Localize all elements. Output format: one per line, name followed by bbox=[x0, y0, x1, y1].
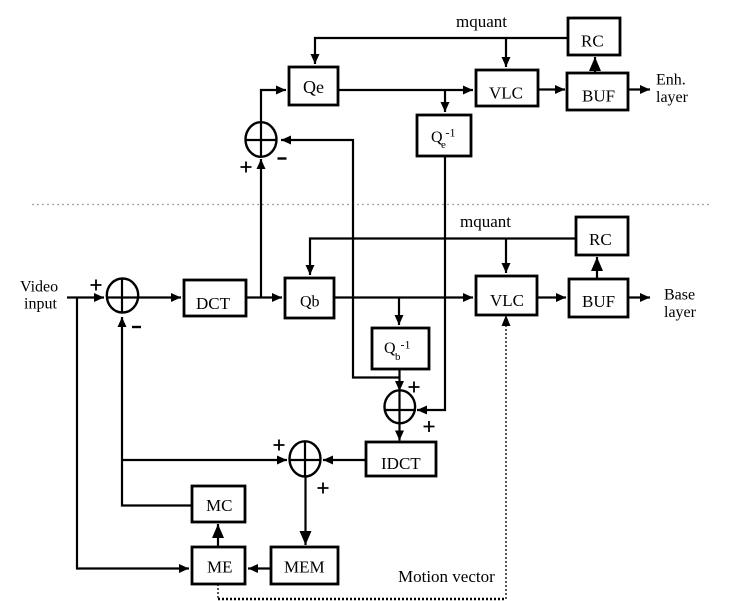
svg-text:input: input bbox=[24, 296, 57, 313]
svg-text:IDCT: IDCT bbox=[381, 454, 421, 473]
svg-text:MEM: MEM bbox=[284, 558, 325, 577]
box Qe-1 bbox=[417, 115, 471, 156]
plus signs at A3 bbox=[409, 382, 420, 393]
svg-text:Base: Base bbox=[664, 287, 695, 304]
wire RC base mquant line to Qb top bbox=[310, 239, 576, 276]
adder A1 (enhancement subtractor) bbox=[246, 122, 277, 157]
wire DCT junction up to A1 plus input bbox=[260, 159, 262, 298]
svg-text:MC: MC bbox=[206, 496, 232, 515]
svg-text:b: b bbox=[395, 351, 401, 363]
wire A3 to IDCT bbox=[398, 423, 400, 441]
wire Qb to VLC base bbox=[334, 296, 473, 298]
wire BUF output Base layer bbox=[628, 296, 650, 298]
wire mquant drop to VLC top bbox=[505, 38, 507, 67]
box Qb-1 bbox=[372, 328, 429, 369]
box IDCT bbox=[366, 442, 436, 476]
wire mquant drop to VLC base top bbox=[505, 239, 507, 274]
wire Qb-1 down to A3 bbox=[398, 369, 400, 391]
wire Qe-1 down to A3 right input bbox=[417, 156, 445, 410]
svg-text:Enh.: Enh. bbox=[656, 72, 686, 89]
dotted wire ME bottom down bbox=[217, 584, 219, 599]
box RC (enh) bbox=[568, 18, 620, 55]
svg-text:mquant: mquant bbox=[460, 212, 511, 231]
wire A4 down to MEM bbox=[304, 476, 306, 545]
wire IDCT to A4 bbox=[323, 459, 366, 461]
box BUF (enh) bbox=[567, 73, 628, 110]
svg-text:-1: -1 bbox=[446, 126, 456, 140]
svg-text:RC: RC bbox=[581, 32, 604, 51]
wire DCT to Qb bbox=[246, 296, 282, 298]
wire MC feedback junction to A4 left input bbox=[122, 459, 287, 461]
plus sign at A1 bbox=[241, 162, 252, 173]
plus signs at A4 bbox=[274, 440, 285, 451]
svg-text:mquant: mquant bbox=[456, 12, 507, 31]
minus sign at A1 bbox=[278, 157, 287, 159]
svg-text:DCT: DCT bbox=[196, 294, 231, 313]
box BUF (base) bbox=[569, 279, 628, 317]
wire ME to MC bbox=[217, 524, 219, 547]
wire video input to A2 bbox=[67, 296, 104, 298]
box DCT bbox=[184, 280, 246, 316]
minus sign at A2 bbox=[132, 326, 141, 328]
dotted wire motion vector up to VLC base bbox=[505, 319, 507, 599]
svg-text:VLC: VLC bbox=[489, 84, 523, 103]
box RC (base) bbox=[576, 217, 628, 255]
box VLC (base) bbox=[476, 276, 537, 315]
arrowhead into VLC base bottom bbox=[502, 315, 511, 326]
adder A3 (reconstruction adder) bbox=[385, 390, 416, 423]
box VLC (enh) bbox=[476, 70, 538, 106]
wire junction drop to Qe-1 bbox=[444, 90, 446, 112]
wire junction drop to Qb-1 bbox=[398, 298, 400, 326]
box Qb bbox=[285, 278, 334, 318]
wire VLC to BUF (enh) bbox=[538, 88, 565, 90]
plus sign at A2 bbox=[91, 280, 102, 291]
wire A2 to DCT bbox=[137, 296, 181, 298]
box ME bbox=[192, 547, 245, 584]
wire RC to mquant line to Qe top bbox=[315, 38, 568, 64]
svg-text:BUF: BUF bbox=[582, 292, 615, 311]
box MC bbox=[192, 486, 245, 522]
wire Qe to VLC bbox=[338, 89, 473, 91]
svg-text:layer: layer bbox=[656, 89, 689, 106]
wire MEM to ME bbox=[248, 567, 271, 569]
svg-text:ME: ME bbox=[207, 558, 233, 577]
svg-text:VLC: VLC bbox=[490, 291, 524, 310]
svg-text:Qe: Qe bbox=[303, 77, 324, 97]
svg-text:Video: Video bbox=[20, 279, 58, 296]
wire MC output to A2 bottom bbox=[122, 317, 192, 506]
wire BUF to RC (enh) bbox=[594, 57, 596, 73]
adder A4 (prediction adder) bbox=[290, 441, 321, 476]
svg-text:e: e bbox=[441, 139, 446, 151]
svg-text:RC: RC bbox=[589, 230, 612, 249]
box MEM bbox=[271, 547, 338, 584]
wire video branch down to ME bbox=[77, 298, 189, 569]
adder A2 (input subtractor) bbox=[107, 279, 138, 313]
svg-text:Motion vector: Motion vector bbox=[398, 567, 495, 586]
wire Qb-1 branch up to A1 minus input bbox=[281, 140, 399, 378]
box Qe bbox=[289, 67, 338, 105]
dashed layer separator bbox=[32, 204, 711, 206]
svg-text:BUF: BUF bbox=[582, 87, 615, 106]
wire adder A1 output to Qe bbox=[261, 90, 286, 123]
svg-text:Qb: Qb bbox=[300, 294, 320, 311]
wire BUF output Enh. layer bbox=[628, 88, 650, 90]
svg-text:layer: layer bbox=[664, 304, 697, 321]
dotted wire motion vector horizontal bbox=[218, 598, 506, 601]
wire VLC to BUF (base) bbox=[537, 296, 566, 298]
wire BUF to RC (base) bbox=[596, 257, 598, 279]
svg-text:-1: -1 bbox=[401, 338, 411, 352]
